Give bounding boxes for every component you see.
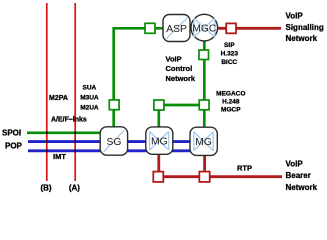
svg-text:RTP: RTP	[237, 164, 252, 173]
box ASP	[163, 15, 190, 42]
svg-text:Network: Network	[166, 74, 196, 83]
svg-text:(A): (A)	[69, 184, 80, 193]
svg-text:SG: SG	[106, 137, 121, 148]
wire MG2 down red stub	[203, 155, 206, 172]
label SIP H.323 BICC	[221, 42, 239, 66]
wire RTP bearer red horizontal	[153, 175, 282, 178]
wire POP blue line 2 (IMT)	[28, 149, 203, 152]
svg-text:Network: Network	[286, 183, 318, 192]
svg-text:M3UA: M3UA	[80, 94, 99, 101]
trunk line (B) red vertical	[46, 3, 48, 181]
svg-text:M2UA: M2UA	[80, 104, 99, 111]
svg-text:MG: MG	[151, 137, 168, 148]
connector square below MGC	[199, 50, 209, 60]
svg-text:MGCP: MGCP	[221, 106, 241, 113]
svg-text:M2PA: M2PA	[49, 95, 68, 102]
svg-text:ASP: ASP	[166, 24, 187, 35]
box MG1	[146, 127, 173, 154]
label VoIP Bearer Network	[286, 159, 318, 191]
svg-text:A/E/F–lnks: A/E/F–lnks	[51, 117, 87, 124]
connector square above MG1	[154, 100, 164, 110]
label VoIP Control Network	[166, 54, 196, 83]
svg-text:VoIP: VoIP	[166, 54, 182, 63]
svg-text:MG: MG	[195, 137, 212, 148]
wire green vertical down to MG1	[157, 105, 160, 128]
svg-text:SIP: SIP	[224, 42, 235, 49]
connector square on bearer line below MG2	[199, 172, 209, 182]
svg-text:SPOI: SPOI	[2, 129, 21, 138]
wire green horizontal junction between MG tops	[159, 104, 205, 107]
wire POP blue line 1 (IMT)	[28, 140, 203, 143]
svg-text:MGC: MGC	[192, 23, 217, 34]
svg-text:VoIP: VoIP	[286, 12, 304, 21]
svg-text:Network: Network	[286, 34, 318, 43]
label MEGACO H.248 MGCP	[216, 90, 245, 113]
connector square on bearer line below MG1	[153, 172, 163, 182]
wire MG1 down red stub	[157, 153, 160, 172]
trunk line (A) red vertical	[74, 3, 76, 181]
svg-text:H.323: H.323	[221, 51, 239, 58]
svg-text:(B): (B)	[40, 184, 51, 193]
svg-text:Signalling: Signalling	[286, 23, 324, 32]
label VoIP Signalling Network	[286, 12, 324, 44]
wire MGC to signalling network red	[218, 27, 282, 30]
box MG2	[190, 127, 217, 155]
wire ASP to SG green L-shape	[114, 28, 163, 127]
connector square on SG green vertical	[109, 100, 119, 110]
svg-text:MEGACO: MEGACO	[216, 90, 245, 97]
svg-text:VoIP: VoIP	[286, 159, 304, 168]
svg-text:SUA: SUA	[83, 85, 97, 92]
connector square on ASP green line	[145, 23, 155, 33]
wire MGC down to MG2 green vertical	[203, 41, 206, 129]
svg-text:IMT: IMT	[53, 152, 66, 161]
wire SPOI green horizontal to SG	[27, 131, 110, 134]
node MGC circle	[191, 14, 218, 41]
svg-text:BICC: BICC	[221, 59, 237, 66]
connector square on signalling red line	[226, 23, 236, 33]
connector square above MG2	[199, 100, 209, 110]
box SG	[100, 127, 127, 155]
label SUA M3UA M2UA	[80, 85, 99, 112]
svg-text:H.248: H.248	[222, 98, 240, 105]
svg-text:Bearer: Bearer	[286, 171, 311, 180]
svg-text:POP: POP	[5, 141, 23, 150]
svg-text:Control: Control	[166, 64, 193, 73]
